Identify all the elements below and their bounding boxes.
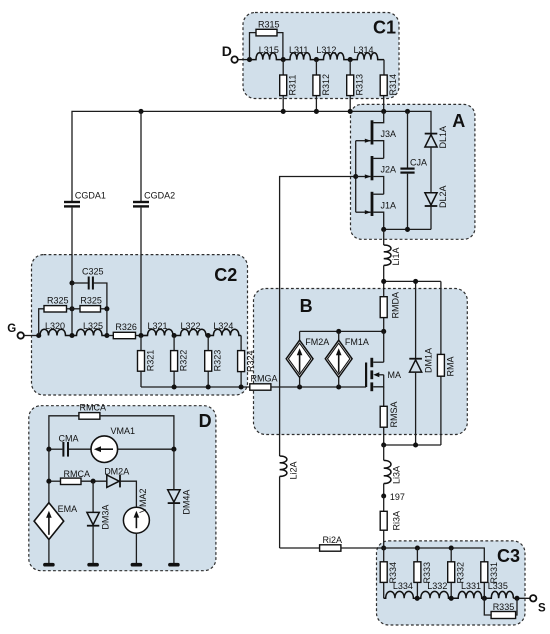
ground (DM4A) [168, 563, 180, 567]
capacitor CJA [400, 111, 427, 229]
inductor L311 [283, 45, 316, 60]
svg-text:VMA2: VMA2 [138, 488, 148, 513]
node [381, 442, 386, 447]
wire D to node [238, 59, 250, 61]
svg-text:L312: L312 [316, 45, 336, 55]
inductor Li2A [280, 456, 299, 548]
ground (VMA2) [131, 563, 143, 567]
svg-text:L335: L335 [488, 581, 508, 591]
resistor R334 [380, 548, 398, 598]
node [138, 333, 143, 338]
wire CGDA1 column into C2 [71, 283, 73, 336]
wire C2 bottom bus [141, 386, 250, 388]
svg-text:C2: C2 [214, 265, 237, 285]
svg-text:L321: L321 [148, 321, 168, 331]
svg-text:L325: L325 [83, 321, 103, 331]
node [206, 333, 211, 338]
diode DL2A [425, 185, 448, 229]
node [206, 384, 211, 389]
node [449, 596, 454, 601]
svg-text:FM2A: FM2A [305, 337, 329, 347]
block D [29, 406, 216, 571]
diode DM1A [409, 281, 433, 445]
node [138, 109, 143, 114]
svg-text:EMA: EMA [58, 504, 78, 514]
svg-text:D: D [199, 411, 212, 431]
svg-text:L322: L322 [181, 321, 201, 331]
node [381, 227, 386, 232]
current source FM2A [286, 331, 329, 387]
node [46, 479, 51, 484]
svg-text:C3: C3 [497, 546, 520, 566]
resistor Ri3A [380, 496, 402, 548]
svg-text:L315: L315 [259, 45, 279, 55]
node [104, 333, 109, 338]
transistor J3A [356, 111, 396, 158]
node [514, 596, 519, 601]
block C2 [32, 255, 248, 395]
svg-text:L331: L331 [461, 581, 481, 591]
svg-text:DL1A: DL1A [438, 126, 448, 149]
diode DM3A [87, 481, 111, 564]
resistor R321 [138, 336, 156, 388]
node [381, 545, 386, 550]
svg-text:L324: L324 [213, 321, 233, 331]
diode DL1A [425, 126, 448, 193]
resistor RMCA (lower) [49, 469, 107, 484]
node (D junction) [247, 57, 252, 62]
resistor R311 [280, 60, 298, 112]
inductor L320 [39, 321, 72, 336]
resistor R335 [484, 598, 517, 618]
capacitor CGDA1 [64, 190, 106, 283]
node [36, 333, 41, 338]
resistor R333 [414, 548, 432, 598]
resistor R315 [250, 19, 283, 59]
wire bottom bus of A [384, 228, 431, 230]
node [348, 109, 353, 114]
inductor Li1A [384, 229, 401, 281]
node [46, 447, 51, 452]
svg-text:RMGA: RMGA [251, 374, 278, 384]
svg-text:CGDA1: CGDA1 [75, 190, 106, 200]
svg-text:RMCA: RMCA [64, 469, 91, 479]
svg-text:VMA1: VMA1 [111, 426, 136, 436]
svg-text:R314: R314 [388, 74, 398, 96]
diode DM2A [104, 467, 136, 508]
resistor RMSA [380, 387, 399, 445]
node [381, 329, 386, 334]
wire Li1A junction bus [384, 280, 441, 282]
node [69, 333, 74, 338]
svg-text:R313: R313 [355, 74, 365, 96]
svg-text:R325: R325 [80, 296, 102, 306]
node [415, 545, 420, 550]
svg-text:CMA: CMA [59, 433, 79, 443]
terminal S [530, 595, 546, 615]
resistor R314 [380, 60, 398, 112]
node [314, 57, 319, 62]
svg-text:197: 197 [390, 492, 405, 502]
svg-text:L332: L332 [427, 581, 447, 591]
inductor L331 [451, 581, 484, 599]
wire left column [48, 449, 50, 503]
source EMA [34, 503, 77, 564]
svg-text:DM2A: DM2A [104, 467, 129, 477]
capacitor CGDA2 [133, 111, 175, 335]
svg-text:Li2A: Li2A [289, 461, 299, 479]
transistor J1A [356, 192, 396, 230]
svg-text:C325: C325 [82, 267, 104, 277]
diode DM4A [168, 449, 192, 564]
svg-text:CGDA2: CGDA2 [144, 190, 175, 200]
terminal G [7, 323, 24, 339]
svg-text:DL2A: DL2A [438, 185, 448, 208]
svg-text:MA: MA [388, 370, 402, 380]
resistor Ri2A [280, 535, 384, 551]
inductor L321 [141, 321, 174, 336]
svg-text:L320: L320 [45, 321, 65, 331]
svg-text:J2A: J2A [381, 165, 397, 175]
svg-text:R335: R335 [493, 602, 515, 612]
block B [254, 289, 468, 435]
resistor RMA [437, 281, 455, 445]
block C1 [243, 13, 399, 99]
svg-text:A: A [452, 111, 465, 131]
wire top bus [72, 111, 431, 201]
node [336, 384, 341, 389]
block C3 [377, 541, 526, 625]
svg-text:R323: R323 [213, 350, 223, 372]
resistor R331 [481, 562, 499, 599]
svg-text:J1A: J1A [381, 200, 397, 210]
svg-text:L314: L314 [354, 45, 374, 55]
svg-text:Ri2A: Ri2A [323, 535, 343, 545]
ground (EMA) [43, 563, 55, 567]
node 197 [381, 492, 405, 502]
svg-text:DM1A: DM1A [423, 348, 433, 373]
node [405, 109, 410, 114]
wire C325 right column [106, 309, 108, 336]
resistor R325 (middle) [72, 296, 107, 312]
source VMA1 [91, 426, 135, 463]
svg-text:DM3A: DM3A [101, 505, 111, 530]
resistor R332 [448, 548, 466, 598]
node [297, 384, 302, 389]
node [348, 57, 353, 62]
inductor L325 [72, 321, 107, 336]
node [172, 384, 177, 389]
resistor R322 [171, 336, 189, 388]
node [405, 227, 410, 232]
resistor R312 [313, 60, 331, 112]
svg-text:Li3A: Li3A [392, 466, 402, 484]
inductor L334 [384, 581, 418, 599]
inductor L335 [484, 581, 530, 599]
wire FM top bus [300, 330, 384, 332]
node [413, 279, 418, 284]
svg-text:R322: R322 [179, 350, 189, 372]
resistor RMDA [380, 281, 400, 331]
terminal D [222, 43, 238, 63]
node [281, 57, 286, 62]
resistor R313 [347, 60, 365, 112]
node [69, 280, 74, 285]
node [239, 384, 244, 389]
svg-text:G: G [7, 323, 16, 335]
node [171, 447, 176, 452]
source VMA2 [123, 488, 149, 564]
wire gate bus of A [355, 141, 357, 213]
wire gate of J2A (from R311 net) [280, 177, 356, 457]
inductor L314 [350, 45, 384, 60]
resistor R323 [205, 336, 223, 388]
svg-text:J3A: J3A [381, 129, 397, 139]
svg-text:R324: R324 [245, 350, 255, 372]
current source FM1A [325, 331, 369, 387]
svg-text:Li1A: Li1A [391, 247, 401, 265]
resistor RMCA (top) [49, 403, 174, 450]
svg-text:R321: R321 [146, 350, 156, 372]
node [353, 174, 358, 179]
svg-text:R315: R315 [258, 19, 280, 29]
svg-text:RMSA: RMSA [389, 401, 399, 427]
wire VMA1 to right column [118, 448, 174, 450]
node [69, 306, 74, 311]
ground (DM3A) [87, 563, 99, 567]
node [381, 109, 386, 114]
svg-text:R326: R326 [115, 322, 137, 332]
resistor R324 [238, 350, 256, 387]
inductor L332 [417, 581, 451, 599]
svg-text:C1: C1 [373, 17, 396, 37]
node [336, 329, 341, 334]
capacitor C325 [72, 267, 107, 309]
svg-text:RMDA: RMDA [390, 292, 400, 319]
svg-text:L311: L311 [289, 45, 308, 55]
inductor L312 [316, 45, 350, 60]
svg-text:DM4A: DM4A [181, 490, 191, 515]
wire B bottom bus [384, 444, 441, 446]
svg-text:RMCA: RMCA [80, 403, 107, 413]
svg-text:S: S [538, 603, 546, 615]
wire L324 to R324 [240, 336, 242, 351]
node [281, 109, 286, 114]
transistor J2A [356, 156, 396, 194]
inductor L315 [250, 45, 284, 60]
inductor L322 [174, 321, 208, 336]
svg-text:RMA: RMA [446, 357, 456, 377]
resistor RMGA [250, 374, 366, 391]
svg-text:FM1A: FM1A [345, 337, 369, 347]
inductor Li3A [384, 445, 402, 496]
svg-text:B: B [300, 296, 313, 316]
node [482, 596, 487, 601]
resistor R325 (left) [39, 296, 72, 336]
wire G to node [24, 335, 40, 337]
transistor MA [366, 331, 401, 391]
svg-text:Ri3A: Ri3A [392, 511, 402, 531]
node [104, 306, 109, 311]
svg-text:R311: R311 [288, 75, 298, 96]
svg-text:R325: R325 [47, 296, 69, 306]
svg-text:CJA: CJA [410, 158, 427, 168]
node [172, 333, 177, 338]
node [415, 596, 420, 601]
svg-text:L334: L334 [393, 581, 413, 591]
inductor L324 [208, 321, 241, 336]
svg-text:R312: R312 [321, 74, 331, 96]
node [91, 479, 96, 484]
node [449, 545, 454, 550]
resistor R326 [107, 322, 148, 339]
capacitor CMA [49, 433, 91, 456]
node [314, 109, 319, 114]
node [413, 442, 418, 447]
svg-text:D: D [222, 43, 232, 59]
block A [351, 104, 475, 239]
node [381, 279, 386, 284]
wire C3 top bus [384, 548, 485, 562]
